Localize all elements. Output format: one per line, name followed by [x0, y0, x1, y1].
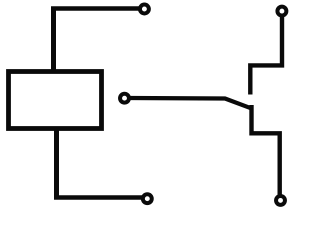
wire: top horizontal to top-left terminal: [51, 6, 139, 11]
wire: coil top lead vertical: [51, 9, 56, 73]
terminal: top-left: [140, 5, 149, 14]
terminal: common (middle): [120, 94, 129, 103]
terminal: bottom-left: [143, 194, 152, 203]
fixed contact NO + wire to top-right terminal: [250, 16, 282, 95]
terminal: bottom-right: [276, 196, 285, 205]
wire: coil bottom lead vertical: [54, 128, 59, 198]
terminal: top-right: [277, 7, 286, 16]
fixed contact NC + wire to bottom-right terminal: [252, 105, 280, 195]
wire: bottom horizontal to bottom-left terminal: [54, 195, 142, 200]
switch arm (movable contact): [130, 98, 253, 109]
relay coil box: [9, 72, 102, 129]
